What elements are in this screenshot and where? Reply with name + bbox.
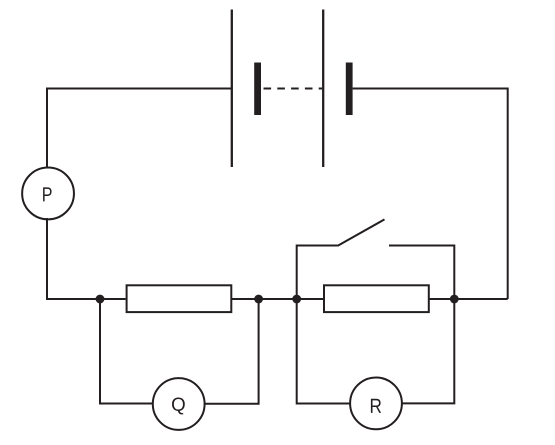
switch S1 right lead bbox=[389, 246, 455, 300]
switch S1 left lead bbox=[296, 246, 338, 300]
wire bottom main segment 3 bbox=[429, 298, 508, 300]
node junction dot B bbox=[254, 295, 263, 304]
wire Q branch right bbox=[204, 299, 259, 405]
battery cell B2 long plate bbox=[322, 10, 324, 168]
wire top-left horizontal bbox=[46, 88, 232, 90]
wire bottom main segment 1 bbox=[46, 298, 126, 300]
wire left vertical lower bbox=[46, 218, 48, 300]
node junction dot C bbox=[292, 295, 301, 304]
resistor R2 box bbox=[324, 285, 429, 312]
wire bottom main segment 2 bbox=[232, 298, 324, 300]
meter R bbox=[350, 378, 402, 430]
wire right vertical bbox=[507, 88, 509, 300]
meter Q bbox=[153, 378, 205, 430]
wire top-right horizontal bbox=[353, 88, 508, 90]
battery cell B1 short thick plate bbox=[254, 63, 261, 116]
switch S1 blade bbox=[338, 219, 385, 246]
wire Q branch left bbox=[99, 299, 153, 404]
battery cell B1 long plate bbox=[231, 10, 233, 168]
battery dashed link between cells bbox=[264, 88, 323, 90]
wire left vertical upper bbox=[46, 88, 48, 170]
resistor R1 box bbox=[127, 285, 232, 312]
wire R branch right bbox=[401, 299, 454, 404]
battery cell B2 short thick plate bbox=[346, 63, 353, 116]
wire R branch left bbox=[296, 299, 351, 404]
node junction dot D bbox=[450, 295, 459, 304]
node junction dot A bbox=[96, 295, 105, 304]
meter P bbox=[22, 168, 74, 220]
